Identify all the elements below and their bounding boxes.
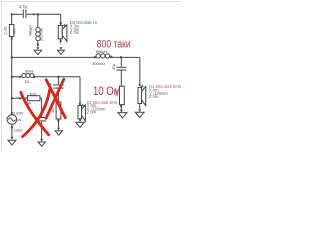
svg-text:4.7μ: 4.7μ bbox=[19, 4, 28, 9]
svg-text:1mΩ: 1mΩ bbox=[14, 127, 22, 132]
svg-text:(600mΩ): (600mΩ) bbox=[40, 28, 44, 41]
svg-text:300mΩ: 300mΩ bbox=[92, 61, 105, 66]
svg-text:3W: 3W bbox=[12, 28, 16, 34]
svg-text:Z 0m: Z 0m bbox=[70, 30, 80, 35]
svg-text:2.83V: 2.83V bbox=[13, 110, 24, 115]
svg-text:Z 0m: Z 0m bbox=[87, 110, 97, 115]
svg-text:800 таки: 800 таки bbox=[97, 39, 131, 51]
svg-text:Z 0m: Z 0m bbox=[149, 94, 159, 99]
svg-text:6mH: 6mH bbox=[25, 68, 33, 73]
svg-text:480μH: 480μH bbox=[29, 25, 33, 37]
svg-text:1Ω: 1Ω bbox=[24, 79, 29, 84]
svg-text:0s: 0s bbox=[17, 117, 21, 122]
svg-text:47μ: 47μ bbox=[112, 64, 116, 70]
svg-text:2.2Ω: 2.2Ω bbox=[4, 26, 8, 34]
svg-text:10 Ом: 10 Ом bbox=[93, 85, 120, 98]
svg-text:10Ω: 10Ω bbox=[29, 91, 36, 96]
